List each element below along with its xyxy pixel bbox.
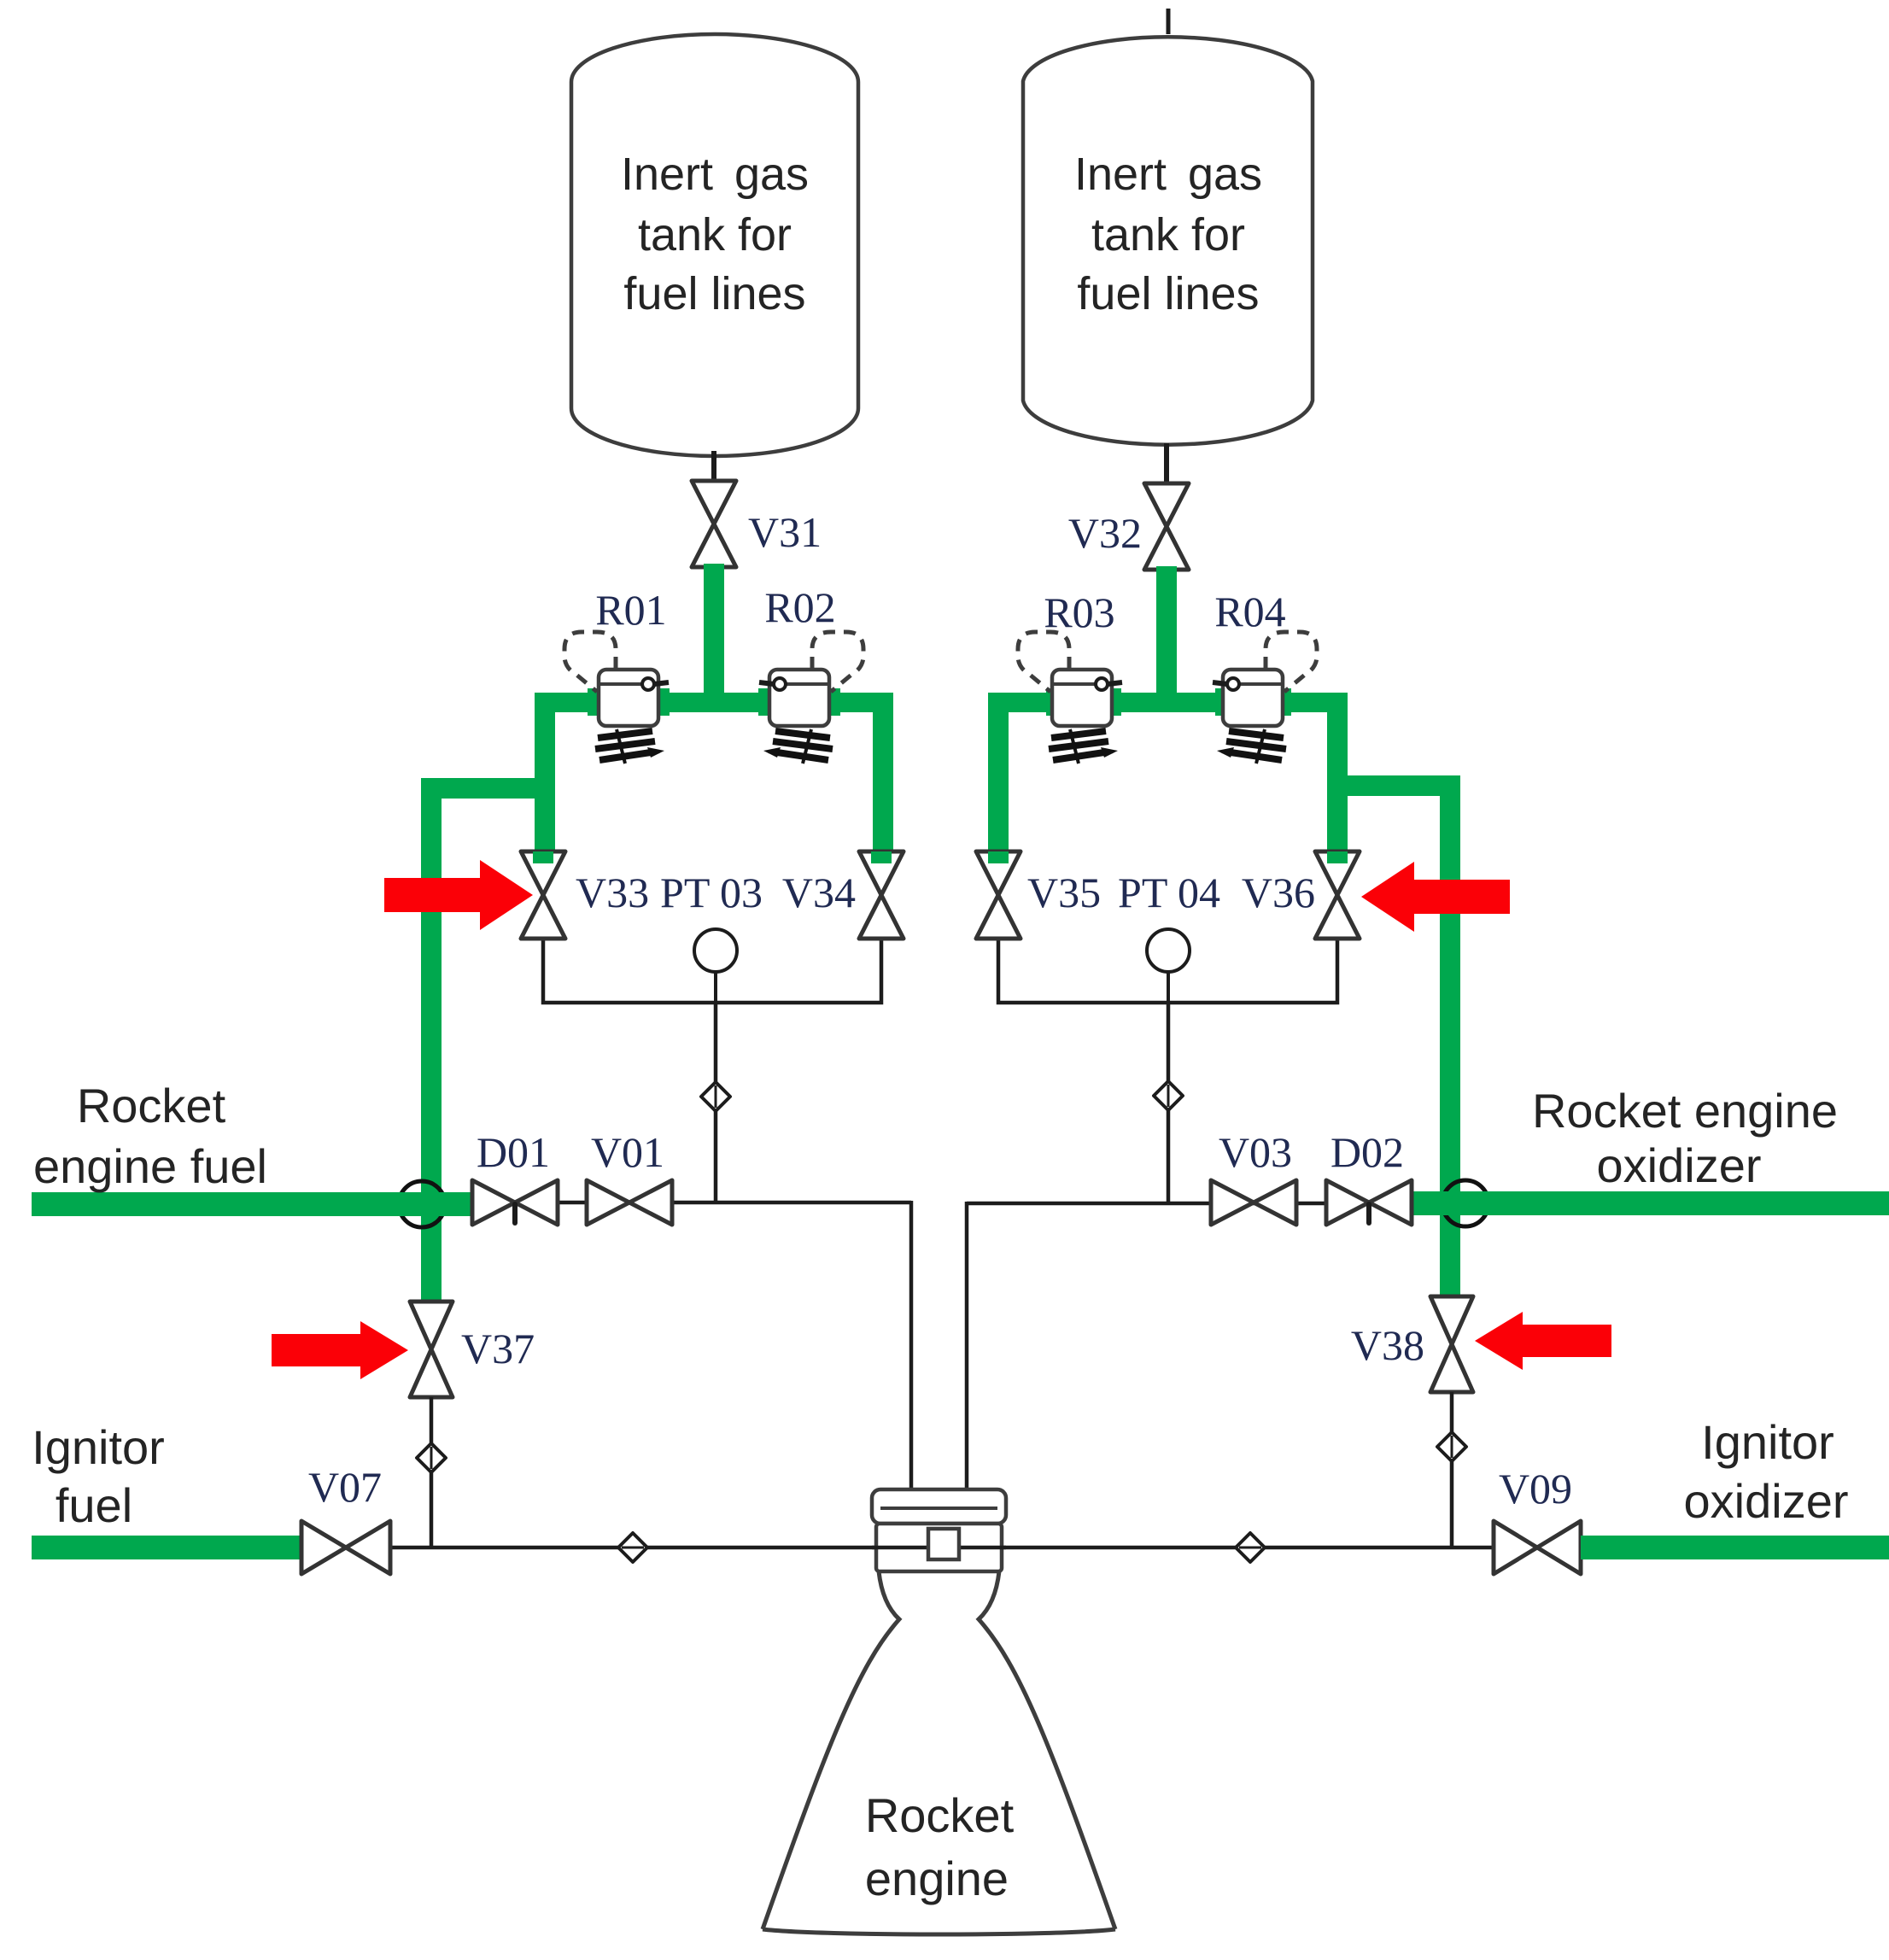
svg-text:V09: V09 bbox=[1499, 1465, 1572, 1512]
svg-text:tank for: tank for bbox=[1091, 209, 1245, 260]
gauge PT04 bbox=[1147, 929, 1190, 972]
check valve CV2 bbox=[1154, 1081, 1183, 1110]
wire ox black line bbox=[967, 1202, 1469, 1206]
pipe green R04 port nubs bbox=[1215, 688, 1231, 716]
svg-text:Rocket: Rocket bbox=[865, 1788, 1015, 1842]
svg-text:Inert gas: Inert gas bbox=[621, 149, 809, 200]
valve D02 bbox=[1326, 1180, 1412, 1225]
pipe green V32 drop bbox=[1156, 566, 1177, 712]
check valve CV5 bbox=[618, 1533, 647, 1562]
pipe green ignitor fuel bbox=[32, 1536, 303, 1559]
wire ignitor through engine bbox=[872, 1546, 1006, 1550]
svg-text:V03: V03 bbox=[1219, 1128, 1292, 1176]
valve V31 bbox=[692, 481, 736, 567]
svg-text:Ignitor: Ignitor bbox=[32, 1420, 165, 1474]
wire fuel black line bbox=[401, 1201, 911, 1205]
svg-text:engine fuel: engine fuel bbox=[33, 1139, 267, 1193]
pipe green drop to V35 bbox=[988, 693, 1009, 861]
svg-text:V35: V35 bbox=[1027, 869, 1101, 916]
svg-text:fuel lines: fuel lines bbox=[623, 268, 805, 319]
svg-text:V36: V36 bbox=[1242, 869, 1315, 916]
svg-text:V07: V07 bbox=[308, 1463, 382, 1511]
svg-text:R01: R01 bbox=[595, 586, 666, 634]
valve V37 bbox=[410, 1302, 453, 1397]
valve V34 bbox=[859, 851, 904, 939]
svg-text:R04: R04 bbox=[1214, 588, 1285, 635]
valve V09 bbox=[1494, 1521, 1581, 1574]
pipe green rocket oxidizer bbox=[1412, 1191, 1889, 1215]
engine injector body bbox=[876, 1524, 1002, 1571]
valve V32 bbox=[1144, 483, 1189, 570]
jump ring ox cross bbox=[1442, 1180, 1488, 1226]
svg-text:D02: D02 bbox=[1330, 1128, 1404, 1176]
svg-text:V32: V32 bbox=[1068, 509, 1142, 557]
svg-text:V37: V37 bbox=[461, 1325, 535, 1372]
arrow into V36 bbox=[1361, 862, 1510, 932]
pipe green R02 port nubs bbox=[758, 688, 774, 716]
valve D01 bbox=[472, 1180, 558, 1225]
engine ignitor port square bbox=[928, 1529, 959, 1559]
pipe green V31 drop bbox=[704, 564, 724, 712]
svg-text:Ignitor: Ignitor bbox=[1701, 1415, 1834, 1469]
tank T2 top nub bbox=[1167, 9, 1171, 34]
arrow into V38 bbox=[1475, 1312, 1611, 1370]
tank T1 inert gas (fuel side) bbox=[571, 34, 858, 456]
tank T2 inert gas (oxidizer side) bbox=[1023, 37, 1313, 444]
wire ox to engine drop bbox=[965, 1202, 969, 1493]
gauge PT03 bbox=[694, 929, 737, 972]
wire PT03 drop bbox=[714, 1003, 718, 1204]
wire tank T1 outlet bbox=[711, 451, 716, 483]
valve V35 bbox=[976, 851, 1021, 939]
pipe green drop to V34 bbox=[873, 693, 893, 861]
wire V37 to ignitor line bbox=[430, 1397, 434, 1548]
svg-text:V31: V31 bbox=[748, 508, 822, 556]
svg-text:engine: engine bbox=[865, 1852, 1009, 1905]
pipe green outer drop to V38 bbox=[1440, 775, 1460, 1300]
svg-text:tank for: tank for bbox=[638, 209, 792, 260]
valve V03 bbox=[1211, 1180, 1296, 1225]
pipe green R01 left run bbox=[535, 693, 602, 712]
valve V01 bbox=[587, 1180, 672, 1225]
regulator R02 bbox=[769, 670, 829, 726]
arrow into V37 bbox=[272, 1321, 408, 1379]
pipe green outer drop to V37 bbox=[421, 778, 442, 1304]
wire PT04 drop bbox=[1167, 1003, 1171, 1204]
pipe green R02 right run bbox=[826, 693, 893, 712]
pipe green right inner drop to V36 bbox=[1327, 693, 1348, 861]
pipe green rocket fuel bbox=[32, 1192, 472, 1216]
wire tank T2 outlet bbox=[1164, 443, 1169, 486]
svg-text:R03: R03 bbox=[1044, 588, 1114, 636]
pipe green manifold R01-R02 bbox=[657, 693, 773, 712]
check valve CV3 bbox=[417, 1443, 446, 1472]
check valve CV6 bbox=[1236, 1533, 1265, 1562]
regulator R04 bbox=[1223, 670, 1283, 726]
pipe green R04 right run bbox=[1281, 693, 1348, 712]
pipe green R03 left run bbox=[988, 693, 1056, 712]
svg-text:PT 03: PT 03 bbox=[660, 869, 763, 916]
pipe green branch to outer drop bbox=[1327, 775, 1460, 796]
regulator R01 bbox=[599, 670, 658, 726]
regulator R03 bbox=[1052, 670, 1112, 726]
pipe green R01 port nubs bbox=[588, 688, 603, 716]
svg-text:D01: D01 bbox=[477, 1128, 550, 1176]
pipe green stubs into V33-V36 tops bbox=[533, 851, 553, 863]
wire manifold PT03 bbox=[543, 936, 881, 1003]
svg-text:PT 04: PT 04 bbox=[1118, 869, 1220, 916]
valve V33 bbox=[521, 851, 565, 939]
valve V38 bbox=[1430, 1296, 1473, 1392]
pipe green branch to outer drop bbox=[421, 778, 555, 799]
pipe green ignitor oxidizer bbox=[1581, 1536, 1889, 1559]
valve V36 bbox=[1315, 851, 1360, 939]
pipe green left inner drop to V33 bbox=[535, 693, 555, 861]
wire ignitor line bbox=[390, 1546, 1499, 1550]
svg-text:V01: V01 bbox=[591, 1128, 664, 1176]
svg-text:R02: R02 bbox=[764, 583, 835, 631]
pipe green manifold R03-R04 bbox=[1110, 693, 1227, 712]
svg-text:V33: V33 bbox=[576, 869, 649, 916]
svg-text:Inert gas: Inert gas bbox=[1074, 149, 1262, 200]
svg-text:V38: V38 bbox=[1351, 1321, 1424, 1369]
jump ring fuel cross bbox=[399, 1181, 445, 1227]
svg-text:oxidizer: oxidizer bbox=[1597, 1138, 1762, 1192]
arrow into V33 bbox=[384, 860, 533, 930]
wire V38 to ignitor line bbox=[1450, 1392, 1454, 1548]
wire manifold PT04 bbox=[998, 936, 1337, 1003]
svg-text:Rocket: Rocket bbox=[77, 1079, 226, 1132]
engine flange inner line bbox=[880, 1507, 997, 1510]
svg-text:fuel lines: fuel lines bbox=[1077, 268, 1259, 319]
valve V07 bbox=[301, 1521, 390, 1574]
svg-text:oxidizer: oxidizer bbox=[1684, 1474, 1849, 1528]
svg-text:fuel: fuel bbox=[56, 1478, 132, 1532]
engine injector flange bbox=[872, 1489, 1006, 1524]
check valve CV1 bbox=[701, 1082, 730, 1111]
wire fuel to engine drop bbox=[909, 1201, 914, 1493]
check valve CV4 bbox=[1437, 1432, 1466, 1461]
svg-text:Rocket engine: Rocket engine bbox=[1532, 1084, 1838, 1138]
engine nozzle bell bbox=[763, 1571, 1115, 1934]
pipe green R03 port nubs bbox=[1046, 688, 1061, 716]
svg-text:V34: V34 bbox=[782, 869, 856, 916]
